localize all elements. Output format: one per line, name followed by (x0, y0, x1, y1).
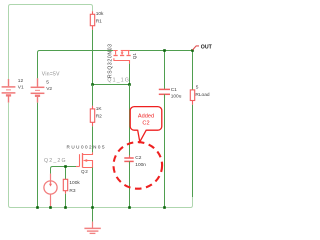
wire: Q2 source to bus (92, 168, 94, 207)
svg-text:100n: 100n (135, 162, 146, 168)
svg-text:R2: R2 (96, 114, 102, 120)
svg-text:OUT: OUT (201, 45, 213, 51)
wire: V1 to bus, bottom bus, right corner up to RLoad (9, 103, 193, 208)
svg-text:1K: 1K (96, 106, 103, 112)
transistor Q2 NMOS (76, 152, 93, 167)
svg-text:C2: C2 (142, 121, 149, 127)
node dot gate left (91, 83, 94, 86)
svg-text:R3: R3 (69, 188, 75, 194)
node dot C1 bus (163, 206, 166, 209)
node dot R3 bus (64, 206, 67, 209)
resistor R3 (65, 167, 67, 180)
svg-text:R1: R1 (96, 19, 102, 25)
annotation dashed circle (114, 142, 163, 189)
node dot R3 top (64, 165, 67, 168)
node dot V2 bus (36, 206, 39, 209)
node dot C1 top (163, 49, 166, 52)
node dot C2 bus (128, 206, 131, 209)
svg-text:5: 5 (46, 79, 49, 85)
wire: V2 down to bus (37, 103, 39, 207)
svg-text:5: 5 (196, 85, 199, 91)
capacitor C2 (129, 85, 131, 159)
wire: Q1 gate down to node (129, 64, 131, 85)
current source G2 (44, 174, 57, 207)
svg-text:Q2: Q2 (81, 169, 89, 174)
svg-text:100u: 100u (171, 93, 182, 99)
svg-text:C1: C1 (171, 87, 177, 93)
wire: R2 bottom to Q2 drain (92, 126, 94, 152)
wire: gate node horizontal (93, 84, 130, 86)
svg-text:V1: V1 (18, 85, 24, 91)
svg-text:Vin=5V: Vin=5V (42, 72, 60, 78)
svg-text:RUU002N05: RUU002N05 (67, 144, 107, 149)
svg-text:Added: Added (138, 114, 154, 120)
wire: R1 bottom down to gate node (92, 30, 94, 85)
node dot gate right (128, 83, 131, 86)
svg-text:C2: C2 (135, 155, 141, 161)
wire: Q1 drain to OUT column (130, 50, 193, 52)
wire: G2 gate wire (51, 167, 77, 174)
svg-text:RSQ320N03: RSQ320N03 (107, 43, 113, 78)
battery V1 (2, 79, 16, 103)
port OUT flag (193, 46, 200, 50)
annotation callout Added C2 (130, 107, 162, 142)
resistor RLoad (192, 51, 194, 90)
transistor Q1 PMOS (rotated, pins up) (113, 51, 131, 64)
node dot Q2 bus (91, 206, 94, 209)
ground (92, 209, 94, 222)
resistor R2 (92, 85, 94, 106)
svg-text:Q1: Q1 (132, 53, 137, 60)
svg-text:V2: V2 (46, 86, 52, 92)
svg-text:10k: 10k (96, 11, 104, 17)
wire: V1 rail top, top wire, drop to R1 (9, 5, 93, 80)
battery V2 (31, 78, 45, 102)
wire: V2 rail up and 5V wire to Q1 (38, 51, 114, 79)
svg-text:Q1_1G: Q1_1G (107, 77, 130, 83)
resistor R1 (90, 11, 94, 30)
node dot OUT (191, 49, 194, 52)
node dot G2 bus (49, 206, 52, 209)
capacitor C1 (164, 51, 166, 90)
svg-text:12: 12 (18, 78, 24, 84)
svg-text:Q2_2G: Q2_2G (44, 158, 67, 164)
svg-text:100k: 100k (69, 180, 80, 186)
svg-text:RLoad: RLoad (195, 92, 209, 98)
